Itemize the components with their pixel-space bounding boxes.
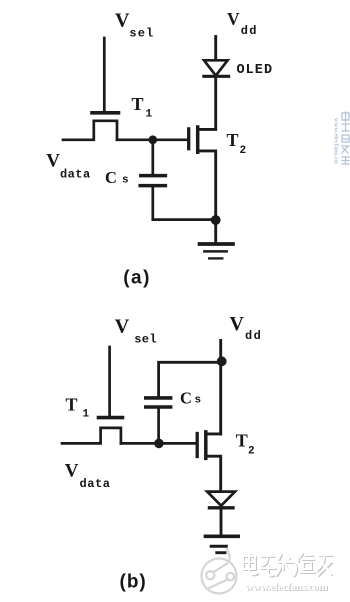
svg-text:(b): (b) [120, 572, 147, 593]
watermark text dianzifashaoyou bottom-right [243, 553, 332, 577]
ground bar 1 (a) [200, 242, 234, 246]
wire Vsel gate lead (a) [103, 38, 106, 112]
net Vdata label (b) [65, 460, 111, 491]
svg-text:C: C [180, 389, 192, 408]
svg-text:1: 1 [146, 109, 153, 121]
node C junction dot (b) [154, 439, 164, 449]
diode OLED cathode bar (b) [209, 506, 233, 509]
caption (a) [123, 268, 151, 289]
diode OLED cathode bar (a) [204, 75, 229, 78]
svg-text:dd: dd [245, 329, 262, 343]
svg-text:sel: sel [129, 27, 154, 41]
svg-text:s: s [195, 395, 202, 407]
ground bar 2 (a) [204, 250, 226, 253]
svg-text:V: V [227, 9, 240, 29]
watermark vertical strip top-right [342, 112, 349, 164]
wire Cs down and across to node B (a) [153, 187, 216, 219]
ground bar 1 (b) [206, 534, 239, 538]
svg-text:T: T [132, 94, 144, 114]
capacitor Cs label (b) [180, 389, 201, 408]
svg-text:data: data [80, 477, 111, 491]
wire Vsel gate lead (b) [108, 347, 111, 416]
ground bar 3 (b) [217, 551, 225, 554]
capacitor Cs bottom plate (b) [146, 405, 171, 409]
capacitor Cs top plate (b) [146, 396, 171, 400]
watermark url bottom-right [245, 581, 329, 594]
svg-text:s: s [122, 174, 129, 186]
label OLED (a) [237, 63, 274, 78]
svg-text:sel: sel [134, 333, 157, 347]
wire top rail corner to Vdd node (b) [159, 362, 222, 396]
transistor T2 drain corner (a) [198, 78, 216, 130]
svg-text:www.elecfans.com: www.elecfans.com [245, 581, 327, 593]
capacitor Cs bottom plate (a) [140, 184, 165, 188]
diode OLED triangle (a) [204, 60, 228, 75]
wire T1 drain to T2 gate (a) [117, 138, 187, 141]
svg-text:2: 2 [248, 445, 255, 457]
svg-text:www.elecfans.cn: www.elecfans.cn [333, 118, 340, 164]
net Vsel label (b) [115, 316, 157, 347]
wire node A down to Cs (a) [151, 140, 154, 174]
svg-text:data: data [60, 168, 91, 182]
transistor T2 gate bar (b) [196, 434, 199, 457]
transistor T1 gate bar (b) [99, 416, 123, 420]
wire OLED cathode to ground (b) [220, 510, 223, 535]
transistor T2 channel bar (a) [196, 127, 200, 152]
wire Vdd lead (a) [214, 37, 217, 61]
transistor T2 source corner (b) [206, 456, 221, 491]
transistor T1 label (b) [66, 395, 90, 421]
svg-text:OLED: OLED [237, 63, 274, 78]
svg-text:V: V [46, 150, 60, 171]
caption (b) [120, 572, 147, 593]
ground bar 3 (a) [209, 257, 222, 259]
node A junction dot (a) [148, 135, 157, 144]
svg-text:V: V [115, 10, 130, 32]
transistor T1 label (a) [132, 94, 153, 121]
wire Cs bottom lead to node C (b) [157, 409, 160, 444]
transistor T2 label (a) [227, 130, 247, 157]
svg-text:V: V [65, 460, 79, 481]
net Vdata label (a) [46, 150, 90, 181]
wire T1 drain to T2 gate (b) [121, 442, 196, 445]
svg-text:dd: dd [241, 24, 258, 38]
transistor T1 channel (a) [63, 121, 117, 140]
svg-text:V: V [230, 313, 245, 335]
svg-text:T: T [227, 130, 239, 150]
transistor T2 drain corner (b) [206, 432, 221, 435]
svg-text:(a): (a) [123, 268, 151, 289]
transistor T2 label (b) [236, 430, 255, 457]
watermark logo circle bottom-right [202, 549, 237, 594]
transistor T1 channel (b) [62, 428, 121, 444]
ground stem (a) [214, 220, 217, 242]
net Vsel label (a) [115, 10, 154, 41]
svg-text:2: 2 [240, 145, 247, 157]
ground bar 2 (b) [211, 545, 226, 548]
svg-text:C: C [105, 168, 117, 187]
node Vdd junction dot (b) [217, 356, 227, 366]
capacitor Cs label (a) [105, 168, 129, 187]
svg-text:T: T [66, 395, 78, 415]
transistor T2 gate bar (a) [187, 129, 190, 149]
capacitor Cs top plate (a) [141, 174, 166, 178]
transistor T1 gate bar (a) [92, 111, 119, 115]
node B junction dot (a) [211, 215, 221, 225]
transistor T2 channel bar (b) [204, 432, 208, 459]
transistor T2 source corner (a) [198, 151, 216, 220]
svg-text:V: V [115, 316, 130, 338]
svg-text:T: T [236, 430, 248, 450]
net Vdd label (b) [230, 313, 263, 343]
diode OLED triangle (b) [207, 492, 235, 506]
wire Vdd lead down to T2 drain (b) [219, 341, 222, 434]
net Vdd label (a) [227, 9, 258, 38]
svg-text:1: 1 [83, 409, 90, 421]
